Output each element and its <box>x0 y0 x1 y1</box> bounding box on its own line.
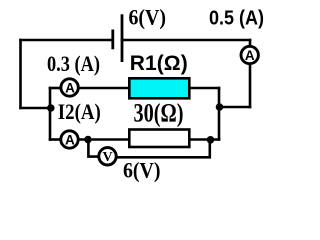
svg-text:A: A <box>245 48 255 63</box>
junction node J4 (voltmeter tap right) <box>207 136 215 144</box>
svg-text:6(V): 6(V) <box>123 157 161 182</box>
svg-text:6(V): 6(V) <box>129 5 167 30</box>
wire left branch bus vertical (node J1 column) <box>49 88 52 140</box>
svg-text:30(Ω): 30(Ω) <box>134 99 184 128</box>
wire voltmeter left drop from node J3 <box>88 140 97 157</box>
wire right rail vertical through ammeter A1 <box>249 40 252 107</box>
resistor R1 body (cyan box) <box>129 78 189 98</box>
wire branch split corner to ammeter A3 <box>50 138 59 141</box>
battery B1 long plate (positive terminal) <box>121 14 124 62</box>
wire branch split corner to ammeter A2 <box>50 87 60 90</box>
wire top-left horizontal (battery negative to left rail) <box>21 39 113 42</box>
wire ammeter A3 to node J3 and resistor R2 <box>80 138 129 141</box>
wire voltmeter right return to node J4 <box>118 140 210 158</box>
junction node J1 <box>47 104 55 112</box>
svg-text:V: V <box>102 150 112 165</box>
junction node J3 (voltmeter tap left) <box>84 136 92 144</box>
wire resistor R1 to right vertical <box>191 87 220 90</box>
resistor R2 body (30 ohm box) <box>129 130 189 148</box>
junction node J2 <box>216 103 224 111</box>
svg-text:R1(Ω): R1(Ω) <box>130 52 188 75</box>
svg-text:0.3 (A): 0.3 (A) <box>47 51 100 76</box>
svg-text:A: A <box>65 80 75 95</box>
svg-text:A: A <box>65 132 75 147</box>
wire top-right horizontal (battery positive to ammeter A1) <box>122 39 250 42</box>
wire resistor R2 to right vertical corner <box>191 138 220 141</box>
svg-text:0.5 (A): 0.5 (A) <box>209 7 264 30</box>
wire ammeter A2 to resistor R1 <box>80 87 128 90</box>
ammeter A1 body (main ammeter, top right) <box>241 46 258 63</box>
svg-text:I2(A): I2(A) <box>58 99 101 124</box>
voltmeter V1 body <box>99 148 116 165</box>
wire right connector horizontal (node J2 to right rail) <box>219 106 250 109</box>
wire bottom-left horizontal into node J1 <box>21 107 52 110</box>
wire parallel-section right vertical (R1 to 30Ω rail) <box>218 88 221 140</box>
wire left rail vertical <box>19 40 22 108</box>
ammeter A3 body (I2 branch ammeter) <box>61 131 78 148</box>
ammeter A2 body (0.3 A branch ammeter) <box>61 79 78 96</box>
battery B1 short plate (negative terminal) <box>111 30 114 50</box>
